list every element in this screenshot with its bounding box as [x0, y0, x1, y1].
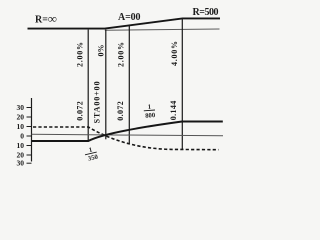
svg-text:STA00+00: STA00+00 — [93, 81, 102, 123]
svg-text:0: 0 — [20, 132, 24, 141]
svg-text:0.072: 0.072 — [76, 101, 85, 121]
grade profile thick line — [28, 18, 221, 28]
axis labels — [17, 103, 25, 168]
centerline thin — [32, 134, 224, 136]
svg-text:1: 1 — [147, 104, 151, 111]
vertical station line 4 — [181, 18, 183, 149]
svg-text:10: 10 — [17, 141, 25, 150]
svg-text:2.00%: 2.00% — [117, 42, 126, 67]
dashed edge line — [33, 127, 219, 150]
svg-text:4.00%: 4.00% — [170, 41, 179, 66]
svg-text:30: 30 — [17, 159, 25, 168]
axis vertical line — [31, 98, 33, 162]
svg-text:20: 20 — [17, 113, 25, 122]
vertical station line 2 — [105, 30, 107, 140]
background paper — [0, 0, 238, 173]
svg-text:R=∞: R=∞ — [35, 12, 57, 26]
svg-text:A=00: A=00 — [118, 12, 141, 23]
thick edge line rising — [32, 122, 223, 142]
vertical station line 3 — [128, 25, 130, 143]
axis ticks — [27, 108, 32, 164]
svg-text:0.072: 0.072 — [116, 101, 125, 121]
svg-text:800: 800 — [145, 112, 156, 120]
vertical station line 1 — [87, 30, 89, 142]
svg-text:2.00%: 2.00% — [76, 42, 85, 67]
svg-text:10: 10 — [17, 122, 25, 131]
svg-text:0%: 0% — [96, 45, 105, 57]
svg-text:R=500: R=500 — [193, 7, 219, 18]
fraction 1/800 — [143, 103, 156, 119]
fraction 1/350 — [84, 145, 100, 163]
thin reference extension line — [105, 29, 220, 30]
svg-text:30: 30 — [17, 103, 25, 112]
svg-text:0.144: 0.144 — [169, 101, 178, 121]
